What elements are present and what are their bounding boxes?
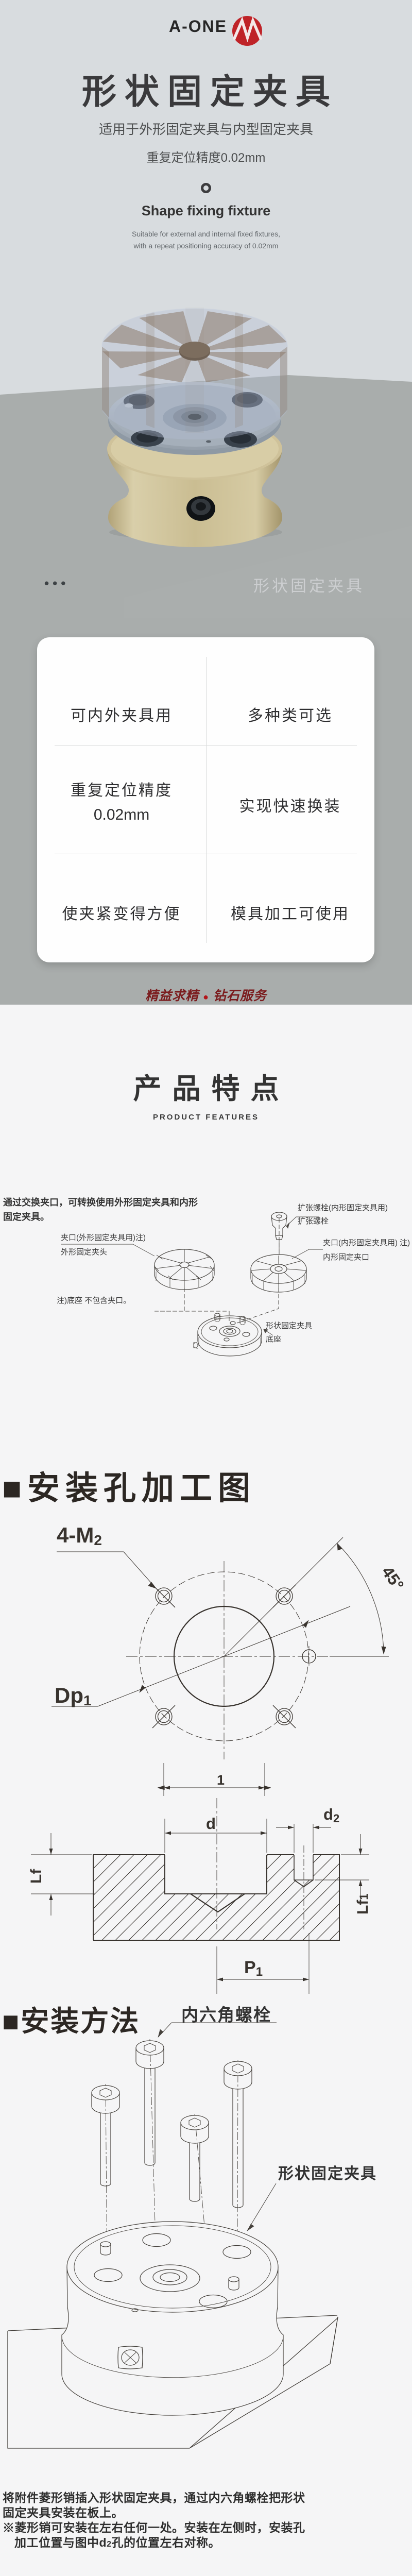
table front face lighter: [124, 526, 412, 618]
base body: [107, 418, 282, 480]
small dot: [132, 2309, 138, 2312]
three dots: [44, 575, 69, 591]
pins: [100, 2244, 111, 2252]
svg-text:1: 1: [217, 1772, 225, 1788]
front knob: [118, 2346, 143, 2369]
leader lines: [61, 1244, 154, 1256]
front screw: [186, 496, 215, 521]
features diagram: [0, 1206, 412, 1381]
plate holes: [124, 392, 263, 448]
bolt holes: [152, 1585, 296, 1728]
centerlines cross-section: [216, 1798, 217, 1929]
Lf left: [31, 1855, 95, 1894]
paragraph: [3, 2490, 305, 2552]
watermark text: [253, 573, 365, 596]
red slogan: [0, 986, 412, 1004]
subtitle 2: [0, 147, 412, 165]
bottom dim 1: [164, 1763, 265, 1796]
product image svg: [77, 286, 319, 549]
svg-text:d2: d2: [323, 1805, 339, 1825]
45 degree ray: [224, 1537, 343, 1656]
svg-text:P1: P1: [244, 1958, 263, 1979]
side pin: [125, 405, 133, 413]
Lf1 right: [315, 1855, 369, 1880]
logo mark: [231, 15, 263, 47]
center rings: [140, 2265, 200, 2292]
left disc 外形固定夹头: [154, 1249, 214, 1290]
east small circle: [302, 1650, 316, 1663]
dashed screw axes: [106, 2039, 238, 2303]
label leader 形状固定夹具: [247, 2183, 276, 2231]
dim d: [165, 1819, 267, 1853]
Dp1 diagonal through center: [98, 1606, 350, 1706]
label leader 内六角螺栓: [158, 2023, 277, 2037]
waist lines: [62, 2336, 283, 2378]
svg-text:d: d: [206, 1815, 216, 1833]
ring icon: [200, 182, 212, 194]
screw A (tall): [136, 2041, 164, 2165]
logo A-ONE: [169, 17, 227, 36]
Shape fixing fixture: [0, 203, 412, 219]
screw C: [181, 2115, 209, 2201]
svg-text:Dp1: Dp1: [55, 1683, 92, 1708]
dashed connector right disc / screw: [279, 1218, 280, 1255]
gold base: [107, 449, 282, 547]
corner holes: [94, 2269, 122, 2282]
features intro text: [3, 1195, 198, 1224]
pocket: [165, 1855, 267, 1894]
hero top light background: [0, 0, 412, 395]
block outline: [93, 1855, 339, 1940]
center boss: [163, 404, 227, 432]
pins on base: [215, 1315, 220, 1320]
shadow: [109, 524, 282, 540]
transparent cylinder: [102, 308, 287, 439]
svg-text:Lf: Lf: [28, 1869, 45, 1884]
plate: [8, 2315, 338, 2448]
subtitle 1: [0, 119, 412, 138]
dim d2: [294, 1824, 313, 1853]
svg-text:45°: 45°: [378, 1563, 407, 1594]
side knob: [194, 1343, 198, 1348]
right disc 内形固定夹口: [251, 1255, 306, 1292]
svg-text:Lf1: Lf1: [354, 1893, 371, 1914]
main circle: [174, 1606, 274, 1706]
d2 slot: [294, 1855, 313, 1880]
feature diagram labels: [61, 1232, 146, 1243]
P1 bottom: [217, 1933, 309, 1994]
centerlines: [126, 1561, 386, 1759]
bolt circle dashed: [140, 1572, 308, 1741]
white feature card: [37, 637, 374, 962]
grid lines: [206, 657, 207, 943]
screw B (left): [92, 2086, 119, 2186]
V notch pocket: [191, 1894, 245, 1912]
dashed connector left disc to base: [154, 1288, 184, 1311]
hatching: [0, 1839, 412, 1953]
45 arc: [337, 1544, 384, 1654]
metal plate: [108, 387, 281, 455]
svg-text:4-M2: 4-M2: [57, 1523, 102, 1548]
labels top view: [55, 1523, 408, 1708]
expansion screw: [271, 1212, 287, 1255]
fixture body: [62, 2222, 283, 2415]
base drawing: [194, 1313, 262, 1356]
title: [0, 64, 412, 114]
screw D: [224, 2061, 252, 2208]
